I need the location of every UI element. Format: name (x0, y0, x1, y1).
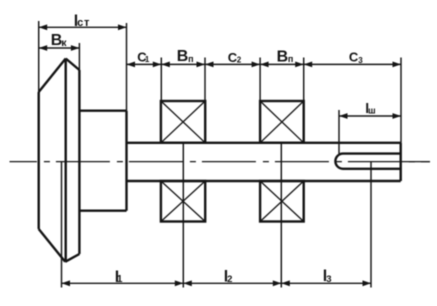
svg-text:п: п (188, 54, 193, 64)
svg-text:2: 2 (237, 55, 242, 64)
svg-text:3: 3 (326, 274, 331, 285)
svg-text:В: В (277, 48, 289, 65)
svg-text:ст: ст (77, 17, 90, 29)
svg-text:ш: ш (368, 106, 376, 116)
svg-text:2: 2 (227, 274, 232, 285)
svg-text:В: В (177, 48, 189, 65)
svg-text:1: 1 (117, 274, 123, 285)
svg-text:п: п (288, 54, 293, 64)
svg-text:к: к (61, 37, 67, 49)
svg-text:3: 3 (358, 56, 363, 65)
svg-text:1: 1 (145, 55, 150, 64)
